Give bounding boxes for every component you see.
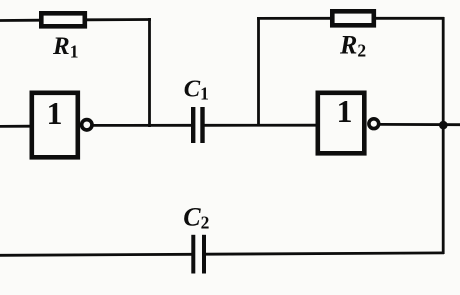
wire gate1 output to C1 [92, 124, 192, 127]
wire gate2 output to right edge [379, 123, 460, 126]
wire R1 feedback vertical [148, 18, 151, 127]
svg-text:1: 1 [47, 95, 63, 131]
wire bottom left of C2 [0, 254, 192, 255]
inverter U2 output bubble [369, 119, 379, 129]
capacitor C1 plate left [191, 107, 195, 143]
capacitor C1 plate right [200, 107, 204, 143]
inverter U1 body [32, 93, 78, 158]
wire R2 left vertical [257, 17, 260, 125]
resistor R2 [332, 11, 374, 25]
wire right feedback vertical [442, 17, 445, 254]
wire C1 to gate2 input [204, 124, 317, 127]
resistor R1 [41, 13, 85, 26]
capacitor C2 plate left [191, 235, 195, 274]
inverter U1 output bubble [82, 120, 92, 130]
inverter U2 body [318, 93, 365, 154]
wire gate1 input [0, 125, 31, 128]
wire R2 left lead [257, 17, 331, 20]
wire bottom right of C2 [206, 253, 444, 254]
wire R1 left lead [0, 19, 41, 22]
capacitor C2 plate right [202, 235, 206, 274]
wire R1 right lead [87, 18, 151, 21]
svg-text:1: 1 [337, 93, 353, 129]
wire R2 right lead [376, 17, 444, 20]
node junction dot [439, 121, 448, 130]
